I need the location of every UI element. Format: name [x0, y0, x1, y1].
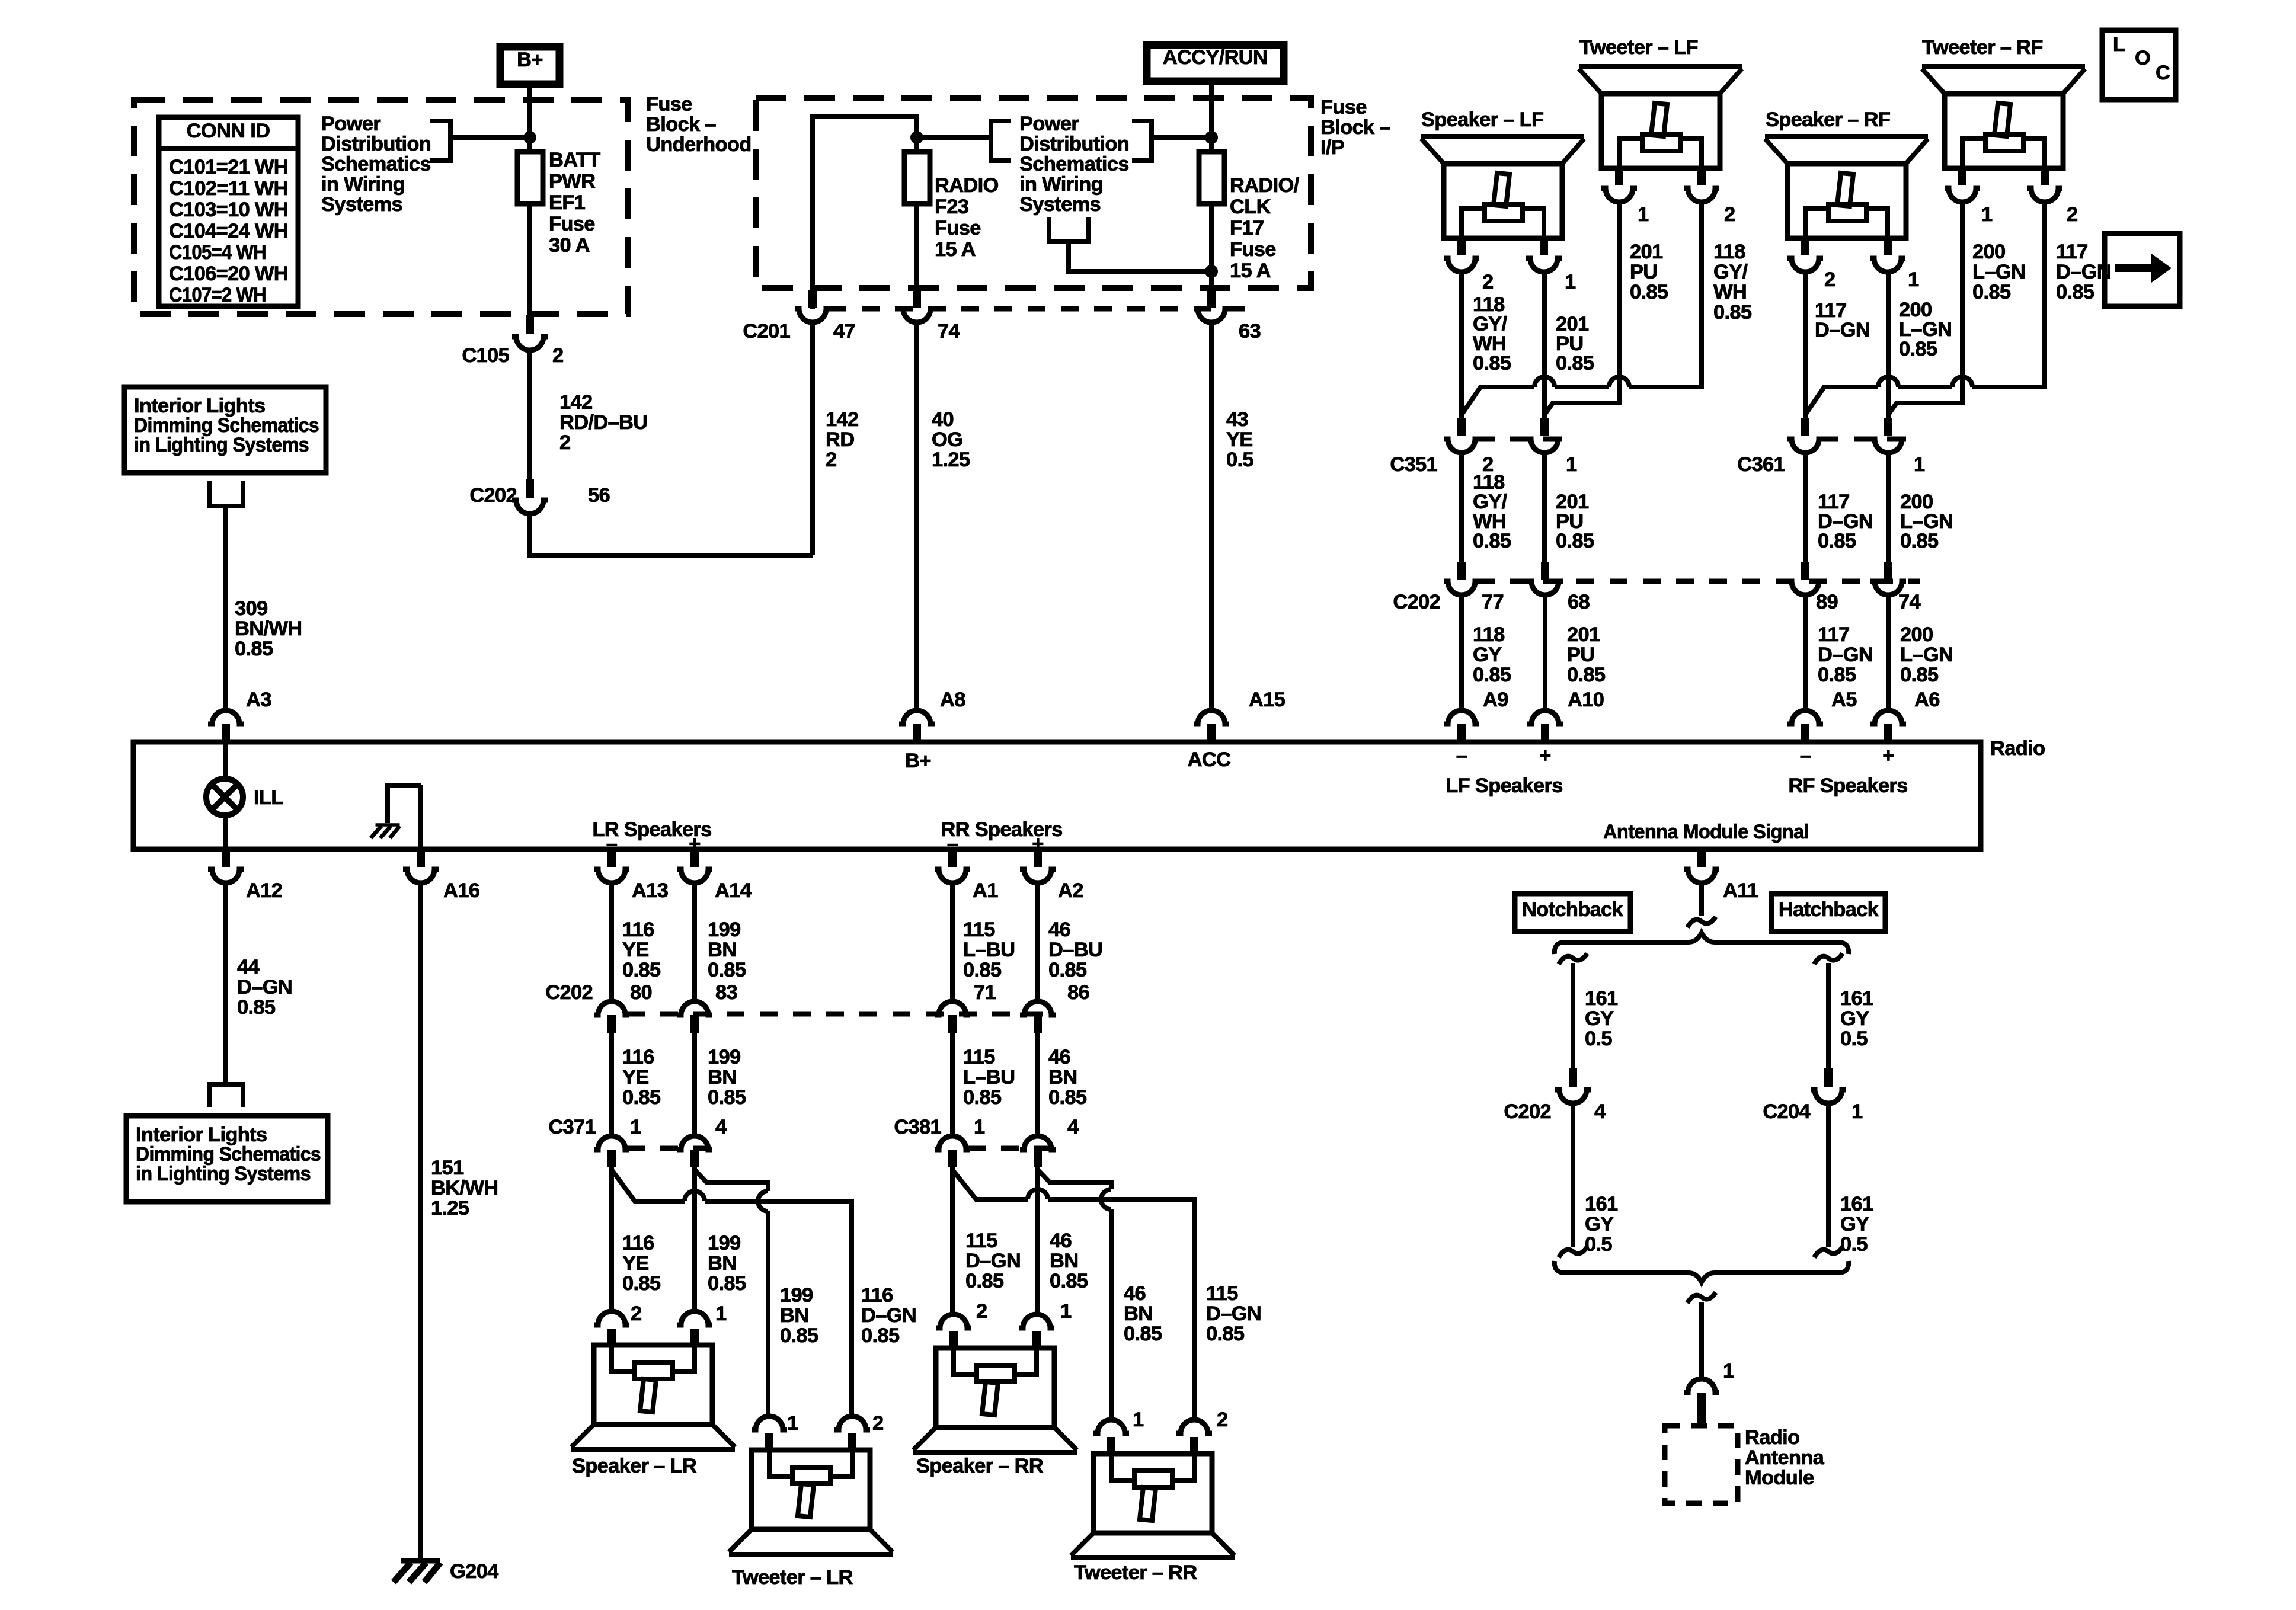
svg-text:0.85: 0.85 [1048, 959, 1087, 981]
svg-text:PU: PU [1567, 644, 1595, 666]
svg-text:117: 117 [2056, 241, 2088, 263]
svg-text:C105=4 WH: C105=4 WH [169, 241, 266, 264]
svg-text:Tweeter – RR: Tweeter – RR [1074, 1561, 1197, 1584]
svg-text:199: 199 [780, 1284, 813, 1307]
svg-text:2: 2 [1217, 1409, 1228, 1431]
svg-text:1: 1 [1133, 1409, 1144, 1431]
svg-text:Power: Power [321, 113, 380, 135]
svg-text:B+: B+ [517, 49, 543, 71]
svg-text:GY: GY [1840, 1213, 1869, 1235]
svg-text:0.85: 0.85 [1900, 530, 1939, 552]
svg-text:Fuse: Fuse [549, 213, 595, 235]
svg-text:83: 83 [715, 981, 737, 1004]
svg-text:63: 63 [1239, 320, 1261, 343]
svg-text:201: 201 [1567, 623, 1600, 646]
svg-text:F17: F17 [1230, 217, 1264, 239]
wire branch 46 BN 0.85 to tweeter RR pin 1 [1038, 1170, 1162, 1420]
svg-text:2: 2 [872, 1412, 884, 1435]
svg-text:0.85: 0.85 [708, 959, 746, 981]
svg-text:Power: Power [1019, 113, 1079, 135]
tweeter RR [1071, 1420, 1235, 1558]
radio pin A3 [208, 689, 271, 742]
svg-text:L–BU: L–BU [963, 1066, 1015, 1089]
wire 201 PU 0.85 (speaker LF pin 1 to C351-1) [1544, 273, 1594, 418]
svg-text:BN: BN [780, 1304, 808, 1327]
wire 142 RD/D-BU link to C201-47 [530, 514, 813, 555]
radio box [133, 742, 1981, 849]
tweeter LR [729, 1416, 893, 1554]
ground symbol (radio internal A16) [370, 785, 421, 847]
svg-text:Speaker – RF: Speaker – RF [1766, 108, 1890, 131]
label Radio Antenna Module [1745, 1426, 1825, 1489]
wire F17 to C201-63 [1209, 204, 1214, 292]
wire A11 to options brace [1687, 883, 1716, 927]
svg-text:Block –: Block – [1320, 116, 1390, 139]
svg-text:161: 161 [1585, 987, 1618, 1010]
svg-text:77: 77 [1482, 591, 1504, 613]
svg-text:YE: YE [622, 939, 649, 961]
svg-text:A1: A1 [973, 879, 998, 902]
wire 118 GY 0.85 (C202-77 to A9) [1462, 595, 1511, 711]
arrow marker box [2105, 233, 2180, 306]
lamp ILL [206, 744, 283, 847]
svg-text:Speaker – LF: Speaker – LF [1421, 108, 1543, 131]
svg-text:LF Speakers: LF Speakers [1446, 774, 1562, 797]
svg-text:0.85: 0.85 [235, 638, 273, 660]
svg-text:ACCY/RUN: ACCY/RUN [1163, 46, 1268, 69]
svg-text:–: – [1456, 744, 1467, 767]
tweeter LF [1579, 66, 1742, 202]
svg-text:0.5: 0.5 [1840, 1028, 1868, 1050]
wire 117 D-GN 0.85 (C202-89 to A5) [1805, 595, 1873, 711]
svg-text:RD/D–BU: RD/D–BU [559, 411, 647, 434]
connector C202 pin 56 [469, 479, 610, 514]
svg-text:C202: C202 [545, 981, 593, 1004]
svg-text:1: 1 [1060, 1300, 1072, 1323]
svg-text:2: 2 [1482, 271, 1494, 293]
label Tweeter - RR and pin numbers [1074, 1409, 1228, 1584]
svg-text:C202: C202 [469, 484, 517, 507]
svg-text:GY: GY [1840, 1007, 1869, 1030]
svg-text:BN: BN [1124, 1302, 1152, 1325]
svg-text:1: 1 [1565, 271, 1576, 293]
svg-text:1: 1 [1914, 453, 1925, 476]
svg-text:2: 2 [2067, 203, 2078, 226]
wire 199 BN 0.85 (C371-4 to speaker LR pin 1) [695, 1167, 746, 1311]
wire 116 YE 0.85 (A13 to C202-80) [612, 883, 661, 1003]
svg-text:115: 115 [965, 1230, 997, 1252]
label Power Distribution Schematics in Wiring Systems (I/P) [1019, 113, 1129, 216]
svg-text:in Lighting Systems: in Lighting Systems [136, 1163, 311, 1185]
svg-text:2: 2 [826, 449, 837, 471]
svg-text:2: 2 [559, 431, 571, 454]
svg-text:B+: B+ [905, 750, 931, 772]
options brace lower [1555, 1261, 1849, 1282]
svg-text:CONN ID: CONN ID [187, 120, 270, 142]
wire ACCY/RUN feed to F17 [1209, 81, 1214, 152]
svg-text:200: 200 [1972, 241, 2005, 263]
svg-text:46: 46 [1050, 1230, 1072, 1252]
label Antenna Module Signal [1603, 821, 1809, 843]
label Speaker - RF and pin numbers [1766, 108, 1919, 291]
connector row C361 pins [1737, 418, 1925, 476]
svg-text:0.85: 0.85 [1473, 530, 1511, 552]
svg-text:2: 2 [552, 344, 564, 367]
wire 200 L-GN 0.85 (C202-74 to A6) [1888, 595, 1953, 711]
speaker RR [913, 1314, 1077, 1452]
svg-text:O: O [2135, 47, 2150, 69]
svg-text:1: 1 [1723, 1360, 1734, 1382]
speaker LR [571, 1311, 735, 1449]
bracket below interior lights box [209, 481, 243, 506]
svg-text:199: 199 [708, 1046, 740, 1068]
svg-text:0.85: 0.85 [1818, 530, 1856, 552]
svg-text:Antenna Module Signal: Antenna Module Signal [1603, 821, 1809, 843]
svg-text:115: 115 [963, 1046, 995, 1068]
svg-text:C101=21 WH: C101=21 WH [169, 156, 288, 178]
svg-text:A15: A15 [1249, 689, 1285, 711]
svg-text:RD: RD [826, 428, 854, 451]
wire 142 RD/D-BU 2 [530, 350, 647, 480]
switched feed ACCY/RUN box [1147, 45, 1284, 81]
svg-text:0.85: 0.85 [1473, 352, 1511, 375]
svg-text:0.85: 0.85 [1124, 1323, 1162, 1345]
wire bracket link to B+ feed [450, 135, 530, 140]
svg-text:A6: A6 [1914, 689, 1940, 711]
svg-text:199: 199 [708, 1232, 740, 1254]
radio pin A10 [1527, 689, 1604, 742]
wire B+ feed to fuse EF1 [527, 84, 532, 152]
svg-text:15 A: 15 A [935, 238, 976, 261]
svg-text:BN: BN [1050, 1250, 1078, 1272]
fuse block underhood dashed box [134, 100, 628, 314]
svg-text:4: 4 [1594, 1100, 1606, 1123]
svg-text:D–GN: D–GN [861, 1304, 916, 1327]
svg-text:BK/WH: BK/WH [431, 1177, 498, 1199]
svg-text:40: 40 [932, 408, 954, 431]
svg-text:115: 115 [1206, 1282, 1238, 1305]
svg-text:47: 47 [833, 320, 855, 343]
wire branch 199 BN 0.85 to tweeter LR pin 1 [695, 1170, 818, 1416]
svg-text:0.85: 0.85 [1630, 281, 1668, 303]
svg-text:C107=2 WH: C107=2 WH [169, 284, 266, 306]
svg-text:1: 1 [1851, 1100, 1863, 1123]
svg-text:D–GN: D–GN [1815, 319, 1870, 341]
svg-text:BN: BN [708, 1066, 736, 1089]
svg-text:C102=11 WH: C102=11 WH [169, 177, 288, 200]
svg-text:Radio: Radio [1990, 737, 2045, 760]
svg-text:L: L [2113, 33, 2125, 56]
labels LR Speakers - + [592, 818, 711, 855]
wire 200 L-GN 0.85 (C361-1 to C202-74) [1888, 453, 1953, 563]
svg-text:A10: A10 [1568, 689, 1604, 711]
radio pin A11 [1684, 849, 1758, 902]
svg-text:46: 46 [1048, 1046, 1070, 1068]
svg-text:Schematics: Schematics [1019, 153, 1129, 175]
connector C204 pin 1 [1763, 1068, 1863, 1123]
fuse F17 RADIO/CLK 15 A [1199, 152, 1224, 204]
svg-text:0.85: 0.85 [1050, 1270, 1088, 1292]
svg-text:Fuse: Fuse [646, 93, 692, 116]
svg-text:151: 151 [431, 1157, 464, 1179]
svg-text:89: 89 [1816, 591, 1838, 613]
radio pin A14 [677, 849, 752, 902]
speaker RF [1765, 136, 1928, 272]
wire 151 BK/WH 1.25 [421, 883, 498, 1558]
svg-text:BN/WH: BN/WH [235, 617, 302, 640]
interior lights dimming reference box (top) [124, 387, 326, 473]
svg-text:2: 2 [1724, 203, 1735, 226]
svg-text:C361: C361 [1737, 453, 1785, 476]
wire 118 GY/WH 0.85 (speaker LF pin 2 to C351-2) [1462, 273, 1511, 418]
label Speaker - LF and pin numbers [1421, 108, 1576, 293]
svg-text:+: + [689, 833, 700, 855]
wire F23 to C201-74 [914, 204, 919, 292]
radio pin A2 [1020, 849, 1083, 902]
svg-text:in Lighting Systems: in Lighting Systems [134, 434, 309, 456]
svg-text:A8: A8 [940, 689, 965, 711]
svg-text:D–GN: D–GN [1206, 1302, 1261, 1325]
svg-text:YE: YE [622, 1252, 649, 1275]
svg-text:74: 74 [938, 320, 960, 343]
label Tweeter - RF and pin numbers [1922, 36, 2078, 226]
radio pin A12 [208, 849, 282, 902]
wire 115 L-BU 0.85 (A1 to C202-71) [952, 883, 1015, 1003]
junction B+ feed [523, 131, 536, 144]
wire 46 BN 0.85 (C381-4 to speaker RR pin 1) [1038, 1167, 1088, 1314]
svg-text:PU: PU [1630, 261, 1658, 283]
svg-text:0.5: 0.5 [1840, 1233, 1868, 1256]
svg-text:Speaker – LR: Speaker – LR [572, 1455, 697, 1477]
svg-text:C381: C381 [894, 1116, 941, 1138]
svg-text:1: 1 [630, 1116, 641, 1138]
svg-text:Distribution: Distribution [1019, 133, 1129, 155]
wire 161 GY 0.5 (notchback lower) [1559, 1103, 1618, 1257]
wire 199 BN 0.85 (C202-83 to C371-4) [695, 1033, 746, 1138]
wire 161 GY 0.5 (hatchback lower) [1814, 1103, 1873, 1257]
svg-text:30 A: 30 A [549, 234, 590, 257]
reference bracket right (I/P) [1132, 121, 1152, 161]
svg-text:C351: C351 [1390, 453, 1437, 476]
bracket above interior lights box (bottom) [209, 1084, 243, 1107]
svg-text:C106=20 WH: C106=20 WH [169, 263, 288, 285]
wire 309 BN/WH 0.85 [226, 506, 302, 711]
wire 161 GY 0.5 (hatchback upper) [1814, 953, 1873, 1070]
label RADIO/ CLK F17 Fuse 15 A [1230, 174, 1300, 282]
wire 117 D-GN 0.85 (C361 to C202-89) [1805, 453, 1873, 563]
connector row C381 pins 1 4 [894, 1116, 1079, 1167]
svg-text:0.85: 0.85 [1818, 664, 1856, 686]
svg-text:201: 201 [1630, 241, 1663, 263]
svg-text:1: 1 [715, 1302, 727, 1325]
svg-text:0.85: 0.85 [622, 1272, 661, 1295]
svg-text:115: 115 [963, 918, 995, 941]
label ACC (radio) [1188, 748, 1231, 771]
connector pin 1 radio antenna module [1684, 1379, 1719, 1427]
radio pin A6 [1870, 689, 1940, 742]
wire 115 D-GN 0.85 (C381-1 to speaker RR pin 2) [952, 1167, 1021, 1314]
svg-text:D–BU: D–BU [1048, 939, 1102, 961]
wire 115 L-BU 0.85 (C202-71 to C381-1) [952, 1033, 1015, 1138]
svg-text:RR Speakers: RR Speakers [941, 818, 1062, 841]
connector row C201 pins 47 74 63 [743, 290, 1261, 343]
wire 200 L-GN 0.85 (tweeter RF pin 1) [1888, 203, 2025, 415]
svg-text:0.85: 0.85 [708, 1272, 746, 1295]
svg-text:Underhood: Underhood [646, 133, 752, 156]
svg-text:YE: YE [1226, 428, 1253, 451]
svg-text:15 A: 15 A [1230, 260, 1271, 282]
power feed B+ box [500, 47, 559, 84]
options brace upper [1555, 933, 1849, 954]
junction F17 feed [1205, 131, 1218, 144]
svg-text:L–BU: L–BU [963, 939, 1015, 961]
wire 116 YE 0.85 (C371-1 to speaker LR pin 2) [612, 1167, 661, 1311]
svg-text:0.85: 0.85 [237, 996, 276, 1019]
svg-text:ILL: ILL [254, 786, 283, 809]
svg-text:C: C [2156, 62, 2170, 84]
svg-text:0.85: 0.85 [963, 1086, 1002, 1109]
svg-text:A5: A5 [1831, 689, 1857, 711]
svg-text:+: + [1032, 833, 1043, 855]
connector row C351 pins 2 1 [1390, 418, 1577, 476]
svg-text:161: 161 [1840, 1193, 1873, 1215]
svg-text:117: 117 [1818, 623, 1850, 646]
wire 44 D-GN 0.85 [226, 883, 292, 1082]
svg-text:0.5: 0.5 [1585, 1233, 1612, 1256]
svg-text:I/P: I/P [1320, 136, 1344, 159]
radio pin A15 [1194, 689, 1285, 742]
svg-text:A9: A9 [1483, 689, 1508, 711]
svg-text:0.85: 0.85 [1567, 664, 1606, 686]
reference bracket left (I/P) [991, 121, 1011, 161]
svg-text:Speaker – RR: Speaker – RR [916, 1455, 1044, 1477]
label Fuse Block - Underhood [646, 93, 752, 156]
svg-text:D–GN: D–GN [965, 1250, 1021, 1272]
svg-text:A12: A12 [246, 879, 282, 902]
svg-text:0.85: 0.85 [963, 959, 1002, 981]
wire 117 D-GN 0.85 (tweeter RF pin 2) [1805, 203, 2111, 415]
wire to radio antenna module pin 1 [1687, 1292, 1734, 1382]
wire EF1 fuse to C105 [527, 204, 532, 316]
svg-text:0.5: 0.5 [1226, 449, 1253, 471]
svg-text:0.85: 0.85 [861, 1324, 900, 1347]
label BATT PWR EF1 Fuse 30 A [549, 149, 600, 257]
svg-text:1: 1 [1981, 203, 1993, 226]
svg-text:200: 200 [1900, 623, 1933, 646]
wire branch 115 D-GN 0.85 to tweeter RR pin 2 [952, 1170, 1261, 1420]
svg-text:68: 68 [1568, 591, 1590, 613]
svg-text:71: 71 [974, 981, 996, 1004]
wire 116 YE 0.85 (C202-80 to C371-1) [612, 1033, 661, 1138]
radio pin A13 [594, 849, 668, 902]
svg-text:RADIO/: RADIO/ [1230, 174, 1300, 197]
svg-text:Distribution: Distribution [321, 133, 431, 155]
label B+ (radio) [905, 750, 931, 772]
junction F23 feed [910, 131, 923, 144]
svg-text:Notchback: Notchback [1522, 898, 1624, 921]
svg-text:1: 1 [787, 1412, 798, 1435]
svg-text:56: 56 [588, 484, 610, 507]
svg-text:L–GN: L–GN [1972, 261, 2025, 283]
svg-text:309: 309 [235, 597, 267, 620]
radio pin A9 [1444, 689, 1508, 742]
svg-text:0.85: 0.85 [1206, 1323, 1245, 1345]
svg-text:RADIO: RADIO [935, 174, 999, 197]
svg-text:116: 116 [622, 1232, 654, 1254]
svg-text:74: 74 [1898, 591, 1920, 613]
svg-text:142: 142 [826, 408, 858, 431]
label Radio [1990, 737, 2045, 760]
svg-text:0.85: 0.85 [622, 959, 661, 981]
svg-text:–: – [606, 833, 618, 855]
svg-text:Tweeter – LF: Tweeter – LF [1579, 36, 1698, 59]
svg-text:EF1: EF1 [549, 191, 586, 214]
svg-text:C104=24 WH: C104=24 WH [169, 220, 288, 242]
svg-text:Fuse: Fuse [1230, 238, 1276, 261]
svg-text:118: 118 [1473, 623, 1505, 646]
svg-text:in Wiring: in Wiring [321, 173, 405, 196]
svg-text:118: 118 [1713, 241, 1745, 263]
labels RF Speakers - + [1788, 744, 1907, 797]
svg-text:A2: A2 [1058, 879, 1083, 902]
svg-text:0.85: 0.85 [965, 1270, 1004, 1292]
labels RR Speakers - + [941, 818, 1062, 855]
svg-text:1.25: 1.25 [431, 1197, 469, 1219]
wire 199 BN 0.85 (A14 to C202-83) [695, 883, 746, 1003]
svg-text:L–GN: L–GN [1900, 644, 1953, 666]
svg-text:2: 2 [631, 1302, 642, 1325]
connector C105 pin 2 [462, 315, 563, 367]
fuse F23 RADIO 15 A [904, 152, 930, 204]
svg-text:0.85: 0.85 [1972, 281, 2011, 303]
svg-text:Module: Module [1745, 1467, 1814, 1489]
label Fuse Block - I/P [1320, 96, 1390, 159]
svg-text:Schematics: Schematics [321, 153, 431, 175]
option box Notchback [1515, 894, 1630, 932]
connector row C202 pins 80 83 71 86 [545, 981, 1089, 1033]
svg-text:CLK: CLK [1230, 196, 1271, 218]
LOC marker box [2102, 30, 2176, 100]
svg-text:GY/: GY/ [1713, 261, 1748, 283]
svg-text:BN: BN [1048, 1066, 1077, 1089]
interior lights dimming reference box (bottom) [126, 1116, 328, 1202]
svg-text:161: 161 [1840, 987, 1873, 1010]
svg-text:0.85: 0.85 [1556, 530, 1594, 552]
svg-text:ACC: ACC [1188, 748, 1231, 771]
svg-text:0.85: 0.85 [1899, 338, 1937, 360]
svg-text:Antenna: Antenna [1745, 1446, 1825, 1469]
ground G204 [394, 1560, 498, 1583]
svg-text:OG: OG [932, 428, 962, 451]
wire 46 D-BU 0.85 (A2 to C202-86) [1038, 883, 1102, 1003]
svg-text:Fuse: Fuse [935, 217, 981, 239]
svg-text:D–GN: D–GN [1818, 644, 1873, 666]
svg-text:44: 44 [237, 956, 259, 978]
svg-text:0.85: 0.85 [780, 1324, 818, 1347]
svg-text:A16: A16 [443, 879, 479, 902]
radio pin A5 [1787, 689, 1857, 742]
svg-text:Radio: Radio [1745, 1426, 1799, 1449]
svg-text:116: 116 [622, 1046, 654, 1068]
svg-text:–: – [947, 833, 958, 855]
svg-text:0.85: 0.85 [1473, 664, 1511, 686]
label Tweeter - LR and pin numbers [732, 1412, 884, 1589]
svg-text:0.85: 0.85 [1048, 1086, 1087, 1109]
fuse block I/P dashed box [756, 98, 1311, 288]
svg-text:0.85: 0.85 [1900, 664, 1939, 686]
svg-text:C202: C202 [1504, 1100, 1551, 1123]
svg-text:1.25: 1.25 [932, 449, 970, 471]
